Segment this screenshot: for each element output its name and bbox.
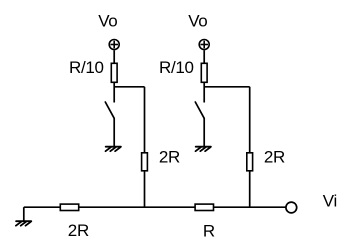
- wire (left source to R/10): [113, 50, 115, 63]
- wire (right 2R column upper): [249, 87, 251, 153]
- svg-text:Vi: Vi: [323, 191, 337, 210]
- svg-text:Vo: Vo: [188, 11, 207, 30]
- resistor 2R left (vertical body): [142, 153, 148, 171]
- wire (left branch to 2R column): [114, 86, 144, 88]
- wire (right source to R/10): [203, 50, 205, 63]
- resistor 2R right (vertical body): [247, 153, 253, 171]
- voltage source terminal V1 (circled plus, left): [109, 40, 119, 50]
- resistor R/10 right (vertical body): [201, 63, 207, 82]
- svg-text:2R: 2R: [264, 148, 285, 167]
- wire (rail: R body to Vi terminal): [214, 206, 286, 208]
- svg-text:R: R: [203, 221, 215, 240]
- wire (left switch to ground): [113, 118, 115, 146]
- resistor R bottom (horizontal body): [195, 204, 213, 210]
- wire (bottom-left drop to ground): [23, 207, 25, 221]
- svg-text:Vo: Vo: [98, 11, 117, 30]
- resistor 2R bottom (horizontal body): [60, 204, 78, 210]
- wire (right 2R column lower): [249, 171, 251, 208]
- voltage source terminal V2 (circled plus, right): [199, 40, 209, 50]
- wire (right switch to ground): [203, 118, 205, 146]
- ground (left switch): [106, 147, 121, 152]
- svg-text:R/10: R/10: [69, 58, 104, 77]
- wire (rail: 2R body to R body): [79, 206, 195, 208]
- switch S1 blade (left): [105, 102, 114, 118]
- wire (right branch to 2R column): [204, 86, 250, 88]
- switch S2 blade (right): [195, 102, 204, 118]
- wire (R/10 bottom to switch contact, left): [113, 82, 115, 102]
- terminal Vi (open circle): [286, 202, 297, 213]
- svg-text:2R: 2R: [159, 148, 180, 167]
- wire (left 2R column upper): [144, 87, 146, 153]
- ground (right switch): [196, 147, 211, 152]
- wire (R/10 bottom to switch contact, right): [203, 82, 205, 102]
- resistor R/10 left (vertical body): [111, 63, 117, 82]
- svg-text:2R: 2R: [68, 221, 89, 240]
- wire (left 2R column lower): [144, 171, 146, 208]
- wire (rail: left end to 2R body): [24, 206, 61, 208]
- svg-text:R/10: R/10: [159, 58, 194, 77]
- ground (bottom left): [16, 221, 31, 226]
